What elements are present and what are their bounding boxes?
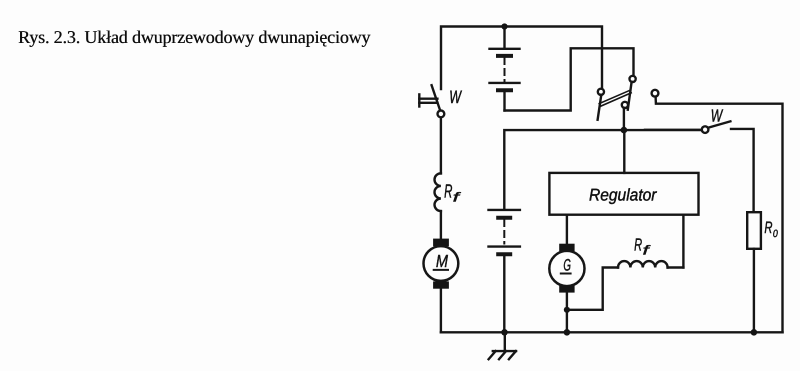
svg-text:f: f — [453, 190, 462, 205]
node D (battery ground junction) — [501, 329, 508, 336]
wire changeover common drop — [623, 108, 625, 130]
motor M — [424, 239, 459, 289]
label M — [434, 251, 449, 271]
regulator box U1 — [549, 173, 698, 215]
wire field tap to coil — [567, 268, 618, 310]
svg-text:M: M — [436, 251, 448, 271]
node F (resistor bottom junction) — [751, 329, 758, 336]
contact/terminal circle (right feed) — [652, 90, 783, 333]
caption text — [18, 28, 370, 46]
wire generator G to bottom bus — [566, 293, 568, 333]
node E (generator bottom junction) — [564, 329, 571, 336]
wire regulator right bottom pin — [682, 215, 684, 268]
ground — [489, 332, 516, 359]
label Rf (left coil) — [444, 182, 461, 205]
resistor Ro — [747, 212, 761, 332]
wire bottom bus — [441, 331, 783, 333]
battery B2 (lower) — [489, 210, 520, 332]
battery B1 (upper) — [490, 27, 520, 111]
wire regulator left bottom pin — [566, 215, 568, 244]
svg-text:G: G — [563, 257, 571, 275]
wire top bus — [441, 27, 602, 90]
svg-text:0: 0 — [773, 228, 778, 240]
switch W (left, with actuator) — [419, 85, 444, 117]
svg-text:f: f — [643, 243, 651, 258]
switch W (right) — [645, 121, 754, 212]
svg-text:Regulator: Regulator — [589, 186, 658, 205]
wire regulator top pin — [623, 130, 625, 173]
node C (generator field tap) — [564, 307, 570, 313]
svg-text:R: R — [634, 235, 642, 255]
wire left drop from switch W to coil — [440, 117, 442, 173]
coil Rf (left, vertical) — [434, 173, 440, 238]
label G — [561, 257, 571, 275]
svg-text:W: W — [449, 87, 462, 107]
svg-text:W: W — [711, 106, 724, 126]
svg-text:R: R — [444, 182, 452, 203]
wire battery B1 return to changeover contact — [505, 48, 634, 110]
wire motor M to bottom bus — [440, 289, 442, 333]
svg-text:R: R — [764, 219, 772, 237]
node A (top bus junction) — [501, 23, 507, 29]
wire middle bus — [504, 130, 705, 208]
coil Rf (right, horizontal) — [618, 261, 683, 267]
generator G — [549, 244, 584, 293]
node B (middle bus junction) — [621, 127, 628, 134]
label Ro — [764, 219, 778, 240]
changeover switch S1 — [598, 76, 636, 120]
label Rf (right coil) — [634, 235, 651, 258]
